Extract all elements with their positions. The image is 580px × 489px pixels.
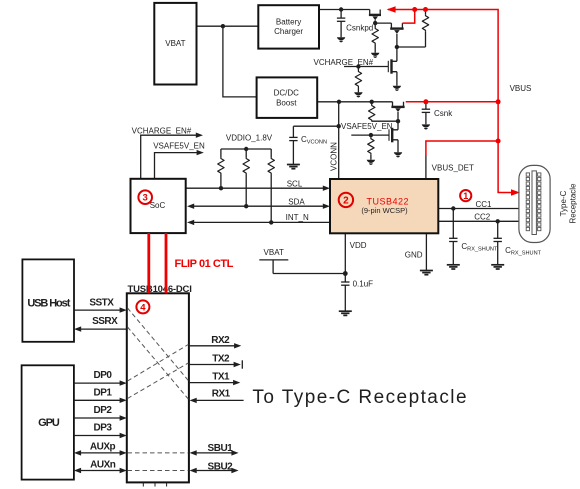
svg-text:RX1: RX1 — [212, 388, 231, 399]
svg-text:Type-C: Type-C — [559, 190, 568, 216]
svg-text:CRX_SHUNT: CRX_SHUNT — [505, 246, 542, 256]
svg-text:VBAT: VBAT — [165, 39, 185, 48]
svg-text:AUXp: AUXp — [90, 442, 116, 453]
svg-text:SSRX: SSRX — [92, 316, 118, 327]
svg-text:VDDIO_1.8V: VDDIO_1.8V — [226, 133, 273, 142]
svg-text:TUSB1046-DCI: TUSB1046-DCI — [128, 284, 192, 295]
svg-text:4: 4 — [140, 302, 146, 313]
svg-text:VDD: VDD — [350, 241, 367, 250]
svg-text:CC1: CC1 — [475, 200, 492, 209]
svg-text:Battery: Battery — [276, 17, 301, 26]
svg-text:AUXn: AUXn — [90, 460, 116, 471]
svg-text:DP3: DP3 — [94, 423, 113, 434]
svg-text:DP0: DP0 — [94, 370, 113, 381]
svg-text:GND: GND — [405, 251, 423, 260]
svg-text:FLIP 01 CTL: FLIP 01 CTL — [175, 258, 234, 270]
svg-text:DP1: DP1 — [94, 387, 113, 398]
svg-text:DP2: DP2 — [94, 405, 113, 416]
svg-text:SSTX: SSTX — [89, 298, 114, 309]
svg-text:2: 2 — [343, 196, 349, 207]
svg-text:GPU: GPU — [38, 417, 60, 429]
svg-text:To Type-C Receptacle: To Type-C Receptacle — [252, 387, 468, 408]
svg-text:Boost: Boost — [276, 98, 297, 107]
svg-text:VCHARGE_EN#: VCHARGE_EN# — [132, 126, 192, 135]
svg-text:CRX_SHUNT: CRX_SHUNT — [461, 242, 498, 253]
svg-text:0.1uF: 0.1uF — [353, 280, 374, 289]
svg-text:VBAT: VBAT — [264, 248, 284, 257]
svg-text:1: 1 — [463, 191, 468, 201]
svg-text:VCONN: VCONN — [330, 142, 339, 171]
svg-text:(9-pin WCSP): (9-pin WCSP) — [361, 206, 408, 215]
svg-text:Csnkpd: Csnkpd — [346, 24, 373, 33]
svg-text:SBU2: SBU2 — [208, 462, 234, 473]
svg-text:USB Host: USB Host — [27, 297, 70, 309]
svg-text:SDA: SDA — [288, 198, 305, 207]
svg-text:TUSB422: TUSB422 — [367, 196, 410, 206]
svg-text:DC/DC: DC/DC — [274, 89, 300, 98]
svg-text:Receptacle: Receptacle — [569, 183, 578, 224]
svg-text:TX2: TX2 — [212, 354, 230, 365]
svg-text:VBUS: VBUS — [510, 84, 532, 93]
svg-text:VCHARGE_EN#: VCHARGE_EN# — [314, 58, 374, 67]
svg-text:INT_N: INT_N — [286, 213, 309, 222]
svg-text:Csnk: Csnk — [434, 109, 453, 118]
svg-text:TX1: TX1 — [212, 372, 230, 383]
svg-text:SCL: SCL — [287, 179, 303, 188]
svg-text:RX2: RX2 — [211, 335, 230, 346]
svg-text:VSAFE5V_EN: VSAFE5V_EN — [341, 122, 393, 131]
svg-text:CVCONN: CVCONN — [301, 135, 327, 146]
svg-text:3: 3 — [143, 193, 148, 204]
svg-text:CC2: CC2 — [474, 212, 491, 221]
svg-text:SBU1: SBU1 — [208, 443, 234, 454]
svg-text:SoC: SoC — [150, 201, 166, 210]
svg-text:VBUS_DET: VBUS_DET — [432, 163, 474, 172]
svg-text:Charger: Charger — [274, 27, 303, 36]
svg-text:VSAFE5V_EN: VSAFE5V_EN — [153, 142, 205, 151]
